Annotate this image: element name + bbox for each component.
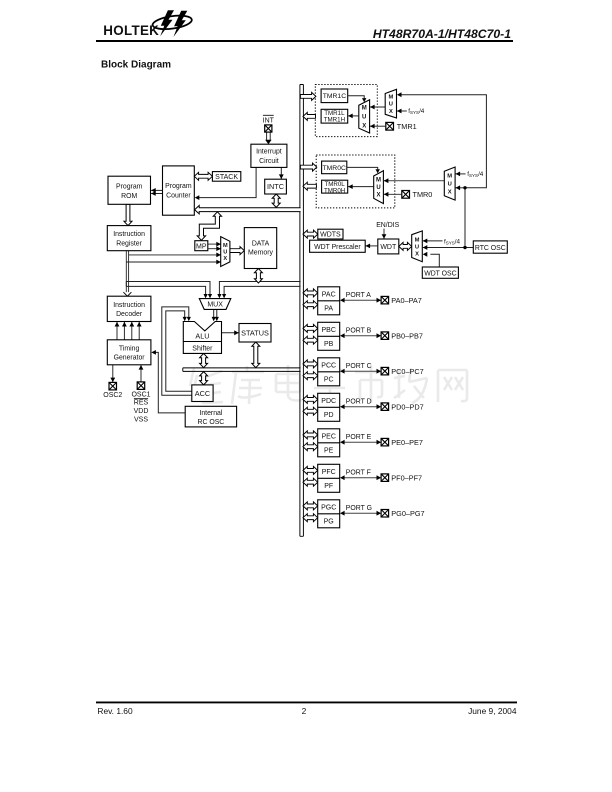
svg-text:U: U bbox=[223, 250, 227, 256]
wire EN/DIS to WDT bbox=[383, 229, 385, 239]
pin TMR1 with label bbox=[386, 122, 394, 130]
block TMR1L TMR1H bbox=[321, 109, 348, 123]
pin PB0-PB7 with label bbox=[381, 332, 389, 340]
arrow bus to port A control bbox=[303, 289, 318, 297]
svg-text:PORT G: PORT G bbox=[346, 505, 372, 512]
block ALU with Shifter bbox=[183, 322, 221, 354]
arrow bus to port B data bbox=[303, 336, 318, 344]
svg-text:M: M bbox=[362, 105, 367, 111]
svg-text:Timing: Timing bbox=[119, 345, 140, 352]
svg-text:TMR0H: TMR0H bbox=[324, 188, 345, 195]
HOLTEK logo lightning bolt 2 bbox=[174, 11, 188, 37]
svg-text:U: U bbox=[415, 244, 419, 250]
wire fsys/4 to timer1 prescale MUX bbox=[397, 110, 407, 112]
wire port F to pins bbox=[344, 477, 378, 479]
svg-text:STATUS: STATUS bbox=[241, 328, 269, 337]
svg-text:PAC: PAC bbox=[322, 292, 336, 299]
svg-text:PORT A: PORT A bbox=[346, 292, 371, 299]
svg-text:HT48R70A-1/HT48C70-1: HT48R70A-1/HT48C70-1 bbox=[373, 27, 511, 41]
arrow bus to port C data bbox=[303, 372, 318, 380]
wire WDT OSC to WDT MUX bbox=[430, 254, 439, 267]
wire port C to pins bbox=[344, 370, 378, 372]
block Program ROM bbox=[108, 176, 151, 204]
svg-text:VSS: VSS bbox=[134, 416, 148, 423]
wire Interrupt pin to Interrupt Circuit bbox=[266, 132, 268, 140]
svg-text:Program: Program bbox=[165, 183, 192, 190]
arrow bus to port F control bbox=[303, 466, 318, 474]
svg-text:PCC: PCC bbox=[321, 363, 336, 370]
wire WDT to WDT Prescaler bbox=[366, 245, 378, 247]
block Program Counter bbox=[163, 166, 195, 215]
svg-text:VDD: VDD bbox=[134, 408, 149, 415]
svg-text:MUX: MUX bbox=[207, 302, 223, 309]
svg-text:fSYS/4: fSYS/4 bbox=[467, 171, 484, 178]
svg-text:HOLTEK: HOLTEK bbox=[103, 23, 159, 38]
wire IR branch to address MUX lower bbox=[126, 261, 221, 263]
wire RTC OSC to WDT MUX bbox=[423, 247, 474, 249]
svg-text:WDT: WDT bbox=[380, 244, 397, 251]
wire PC to Program ROM lower bbox=[151, 193, 162, 195]
svg-text:M: M bbox=[447, 174, 452, 180]
pin INT with label bbox=[265, 125, 272, 132]
svg-text:M: M bbox=[376, 178, 381, 184]
block Instruction Decoder bbox=[107, 296, 151, 321]
arrow bus to port A data bbox=[303, 301, 318, 309]
svg-text:PORT D: PORT D bbox=[346, 399, 372, 406]
svg-text:TMR0: TMR0 bbox=[413, 190, 433, 199]
wire MP to address MUX upper bbox=[208, 243, 221, 245]
arrow bus to port D control bbox=[303, 395, 318, 403]
svg-text:STACK: STACK bbox=[215, 174, 238, 181]
wire RTC clock riser to timers bbox=[398, 95, 486, 246]
svg-text:TMR1: TMR1 bbox=[397, 122, 417, 131]
arrow bus to port E control bbox=[303, 431, 318, 439]
wire TMR1 pin to timer1 MUX bbox=[370, 125, 386, 127]
svg-text:DATA: DATA bbox=[252, 240, 270, 247]
svg-text:U: U bbox=[362, 114, 366, 120]
mux timer0 internal MUX bbox=[374, 171, 384, 204]
svg-text:Counter: Counter bbox=[166, 192, 191, 199]
svg-text:Shifter: Shifter bbox=[192, 346, 213, 353]
svg-text:ALU: ALU bbox=[195, 332, 209, 341]
block ACC bbox=[192, 385, 213, 402]
arrow bus to port D data bbox=[303, 407, 318, 415]
wire TMR0 pin to timer0 MUX bbox=[384, 193, 402, 195]
wire port A to pins bbox=[344, 299, 378, 301]
svg-text:M: M bbox=[388, 94, 393, 100]
arrow TMR1 to bus (read) bbox=[303, 112, 316, 120]
mux ALU operand MUX bbox=[199, 299, 231, 310]
mux timer0 prescale MUX bbox=[444, 167, 455, 200]
svg-text:PE: PE bbox=[324, 448, 334, 455]
svg-text:MP: MP bbox=[196, 243, 207, 250]
svg-text:PC0–PC7: PC0–PC7 bbox=[391, 367, 423, 376]
arrow WDT to WDT MUX bbox=[399, 242, 412, 250]
svg-text:U: U bbox=[448, 182, 452, 188]
wire ACC feedback loop to ALU inner bbox=[166, 311, 192, 391]
arrow Shifter to result bus bbox=[200, 353, 208, 367]
wire TG to OSC2 pin bbox=[112, 365, 114, 382]
footer rule bbox=[96, 701, 517, 703]
svg-text:Instruction: Instruction bbox=[113, 302, 145, 309]
svg-text:WDT OSC: WDT OSC bbox=[424, 271, 456, 278]
wire timer0 MUX to TMR0L/H bbox=[348, 186, 374, 188]
svg-text:Rev. 1.60: Rev. 1.60 bbox=[97, 706, 133, 716]
wire ALU to STATUS bbox=[222, 332, 239, 334]
wire ALU MUX output to ALU bbox=[213, 309, 215, 317]
arrow bus to port B control bbox=[303, 324, 318, 332]
wire MP to bus-path (hollow Z arrow) bbox=[197, 212, 221, 241]
wire bus to Program Counter (hollow path) bbox=[195, 205, 301, 214]
HOLTEK logo lightning bolt 1 bbox=[160, 10, 174, 36]
pin PE0-PE7 with label bbox=[381, 438, 389, 446]
svg-text:Circuit: Circuit bbox=[259, 158, 279, 165]
wire port D to pins bbox=[344, 406, 378, 408]
system data bus bbox=[300, 85, 304, 537]
wire Program ROM to Instruction Register (open arrow) bbox=[124, 204, 132, 225]
arrow bus to TMR0 (write) bbox=[300, 163, 316, 171]
timer 1 dashed enclosure bbox=[315, 85, 377, 137]
pin OSC2 with label bbox=[109, 382, 117, 390]
wire OSC1 pin to TG bbox=[140, 365, 142, 382]
svg-text:PORT F: PORT F bbox=[346, 470, 371, 477]
timer 0 dashed enclosure bbox=[316, 155, 395, 208]
junction dot RTC bbox=[463, 246, 466, 249]
wire timing generator feedback lines TG to ID bbox=[116, 322, 118, 340]
pin PF0-PF7 with label bbox=[381, 474, 389, 482]
wire timer0 prescale MUX to timer0 MUX bbox=[384, 180, 445, 182]
svg-text:Instruction: Instruction bbox=[113, 231, 145, 238]
header rule bbox=[96, 40, 513, 42]
svg-text:PF0–PF7: PF0–PF7 bbox=[391, 473, 422, 482]
svg-text:PF: PF bbox=[324, 483, 333, 490]
svg-text:PB0–PB7: PB0–PB7 bbox=[391, 331, 423, 340]
svg-text:PFC: PFC bbox=[322, 469, 336, 476]
wire TMR1C to timer1 MUX bbox=[348, 96, 365, 98]
wire Instruction Register output pair down to Instruction Decoder bbox=[125, 251, 127, 293]
arrow bus to port G control bbox=[303, 502, 318, 510]
block STATUS bbox=[239, 324, 271, 343]
svg-text:X: X bbox=[389, 109, 393, 115]
svg-text:PORT E: PORT E bbox=[346, 434, 372, 441]
svg-text:WDT Prescaler: WDT Prescaler bbox=[314, 244, 361, 251]
svg-text:OSC1: OSC1 bbox=[131, 392, 150, 399]
wire data path bus to ALU MUX right segment bbox=[219, 282, 300, 295]
block DATA Memory bbox=[244, 228, 276, 269]
svg-text:PB: PB bbox=[324, 341, 334, 348]
svg-text:INTC: INTC bbox=[267, 182, 284, 191]
svg-text:Generator: Generator bbox=[114, 355, 146, 362]
wire TMR0C to timer0 MUX bbox=[347, 167, 378, 169]
block Instruction Register bbox=[107, 226, 151, 251]
svg-text:M: M bbox=[415, 237, 420, 243]
svg-text:X: X bbox=[448, 190, 452, 196]
svg-text:RC OSC: RC OSC bbox=[197, 419, 224, 426]
svg-text:PBC: PBC bbox=[321, 327, 335, 334]
svg-text:TMR1H: TMR1H bbox=[324, 117, 345, 124]
svg-text:PD0–PD7: PD0–PD7 bbox=[391, 402, 423, 411]
svg-text:X: X bbox=[415, 251, 419, 257]
block WDT bbox=[378, 239, 399, 254]
arrow bus to port E data bbox=[303, 443, 318, 451]
junction dot timers bbox=[463, 186, 466, 189]
wire data path bus to ALU MUX left segment bbox=[126, 282, 210, 295]
svg-text:PORT B: PORT B bbox=[346, 328, 372, 335]
wire junction to timer0 prescale MUX bbox=[456, 187, 465, 189]
block TMR0L TMR0H bbox=[322, 180, 348, 193]
block TMR1C bbox=[321, 89, 348, 103]
svg-text:Block Diagram: Block Diagram bbox=[101, 60, 171, 71]
svg-text:Memory: Memory bbox=[248, 250, 273, 257]
wire port B to pins bbox=[344, 335, 378, 337]
pin PD0-PD7 with label bbox=[381, 403, 389, 411]
svg-text:PORT C: PORT C bbox=[346, 363, 372, 370]
svg-text:Interrupt: Interrupt bbox=[256, 149, 282, 156]
block WDT Prescaler bbox=[310, 240, 366, 252]
arrow bus to port C control bbox=[303, 360, 318, 368]
arrow bus to WDTS bbox=[303, 230, 318, 238]
HOLTEK logo ellipse bbox=[152, 14, 193, 32]
mux address MUX (RAM) bbox=[221, 237, 230, 267]
svg-text:PD: PD bbox=[324, 412, 334, 419]
mux WDT clock MUX bbox=[412, 231, 423, 262]
wire timer1 MUX to TMR1L/H bbox=[348, 115, 359, 117]
wire PC to Program ROM upper bbox=[151, 189, 162, 191]
block port D registers PDC and PD bbox=[318, 393, 340, 421]
svg-text:Register: Register bbox=[116, 241, 142, 248]
mux timer1 prescale MUX bbox=[385, 89, 396, 118]
svg-text:PG0–PG7: PG0–PG7 bbox=[391, 509, 424, 518]
arrow address MUX to DATA Memory bbox=[230, 247, 245, 255]
svg-text:PG: PG bbox=[324, 519, 334, 526]
svg-text:TMR1C: TMR1C bbox=[323, 93, 347, 100]
wire MP to address MUX lower bbox=[208, 248, 221, 250]
wire ACC feedback loop to ALU outer bbox=[162, 307, 192, 395]
pin TMR0 with label bbox=[402, 191, 410, 199]
arrow bus to port G data bbox=[303, 514, 318, 522]
arrow Program Counter to STACK bbox=[194, 172, 212, 180]
block Timing Generator bbox=[107, 340, 151, 365]
svg-text:PEC: PEC bbox=[321, 434, 335, 441]
svg-text:Internal: Internal bbox=[199, 410, 222, 417]
svg-text:ROM: ROM bbox=[121, 193, 137, 200]
svg-text:EN/DIS: EN/DIS bbox=[376, 222, 399, 229]
svg-text:June 9, 2004: June 9, 2004 bbox=[468, 706, 517, 716]
svg-text:OSC2: OSC2 bbox=[103, 392, 122, 399]
block STACK bbox=[212, 172, 240, 182]
svg-text:PA0–PA7: PA0–PA7 bbox=[391, 296, 422, 305]
arrow bus to port F data bbox=[303, 478, 318, 486]
svg-text:fSYS/4: fSYS/4 bbox=[444, 238, 461, 245]
pin PG0-PG7 with label bbox=[381, 510, 389, 518]
arrow TMR0 to bus (read) bbox=[303, 182, 316, 190]
mux timer1 internal MUX bbox=[359, 100, 370, 133]
svg-text:PE0–PE7: PE0–PE7 bbox=[391, 438, 423, 447]
svg-text:X: X bbox=[223, 256, 227, 262]
svg-text:WDTS: WDTS bbox=[320, 232, 341, 239]
wire Interrupt Circuit to INTC bbox=[280, 167, 282, 179]
block WDT OSC bbox=[422, 267, 458, 278]
svg-text:Program: Program bbox=[116, 184, 143, 191]
wire Interrupt Circuit to Program Counter bbox=[199, 167, 256, 197]
pin PA0-PA7 with label bbox=[381, 296, 389, 304]
arrow INTC to bus path bbox=[272, 194, 280, 207]
block port F registers PFC and PF bbox=[318, 464, 340, 492]
wire fsys/4 to timer0 prescale MUX bbox=[456, 173, 466, 175]
svg-text:X: X bbox=[362, 123, 366, 129]
svg-text:TMR0C: TMR0C bbox=[322, 165, 346, 172]
watermark bbox=[190, 365, 467, 404]
pin OSC1 with label bbox=[137, 382, 145, 390]
block MP bbox=[195, 241, 208, 251]
svg-text:U: U bbox=[389, 102, 393, 108]
arrow DATA Memory to data path bbox=[254, 269, 262, 284]
svg-text:RTC OSC: RTC OSC bbox=[475, 245, 506, 252]
pin PC0-PC7 with label bbox=[381, 367, 389, 375]
arrow bus to TMR1 (write) bbox=[300, 92, 316, 100]
block Interrupt Circuit bbox=[251, 144, 287, 167]
svg-text:PGC: PGC bbox=[321, 505, 336, 512]
wire ALU result bus bbox=[183, 368, 301, 372]
arrow STATUS to result bus bbox=[252, 342, 260, 368]
wire port G to pins bbox=[344, 512, 378, 514]
wire IR branch to address MUX upper bbox=[129, 254, 221, 256]
block RTC OSC bbox=[473, 241, 507, 253]
svg-text:M: M bbox=[223, 243, 228, 249]
block port E registers PEC and PE bbox=[318, 429, 340, 457]
svg-text:U: U bbox=[376, 185, 380, 191]
svg-text:PA: PA bbox=[324, 306, 333, 313]
svg-text:PC: PC bbox=[324, 377, 334, 384]
svg-text:Decoder: Decoder bbox=[116, 311, 143, 318]
arrow result bus to ACC bbox=[200, 372, 208, 385]
wire timer1 prescale MUX to timer1 MUX bbox=[370, 106, 385, 108]
block Internal RC OSC bbox=[185, 406, 236, 427]
block port B registers PBC and PB bbox=[318, 322, 340, 350]
svg-text:INT: INT bbox=[263, 117, 275, 124]
block INTC bbox=[265, 179, 287, 194]
svg-text:fSYS/4: fSYS/4 bbox=[408, 108, 425, 115]
wire Internal RC OSC to Timing Generator bbox=[155, 352, 185, 413]
block WDTS bbox=[318, 229, 343, 239]
wire port E to pins bbox=[344, 441, 378, 443]
HOLTEK logo text bbox=[103, 23, 159, 38]
svg-text:X: X bbox=[376, 193, 380, 199]
block port C registers PCC and PC bbox=[318, 358, 340, 386]
svg-text:2: 2 bbox=[302, 706, 307, 716]
svg-text:RES: RES bbox=[134, 400, 149, 407]
svg-text:PDC: PDC bbox=[321, 398, 336, 405]
block TMR0C bbox=[322, 161, 347, 174]
svg-text:ACC: ACC bbox=[195, 389, 210, 398]
block port A registers PAC and PA bbox=[318, 287, 340, 315]
wire fsys/4 to WDT MUX bbox=[423, 240, 443, 242]
block port G registers PGC and PG bbox=[318, 500, 340, 528]
